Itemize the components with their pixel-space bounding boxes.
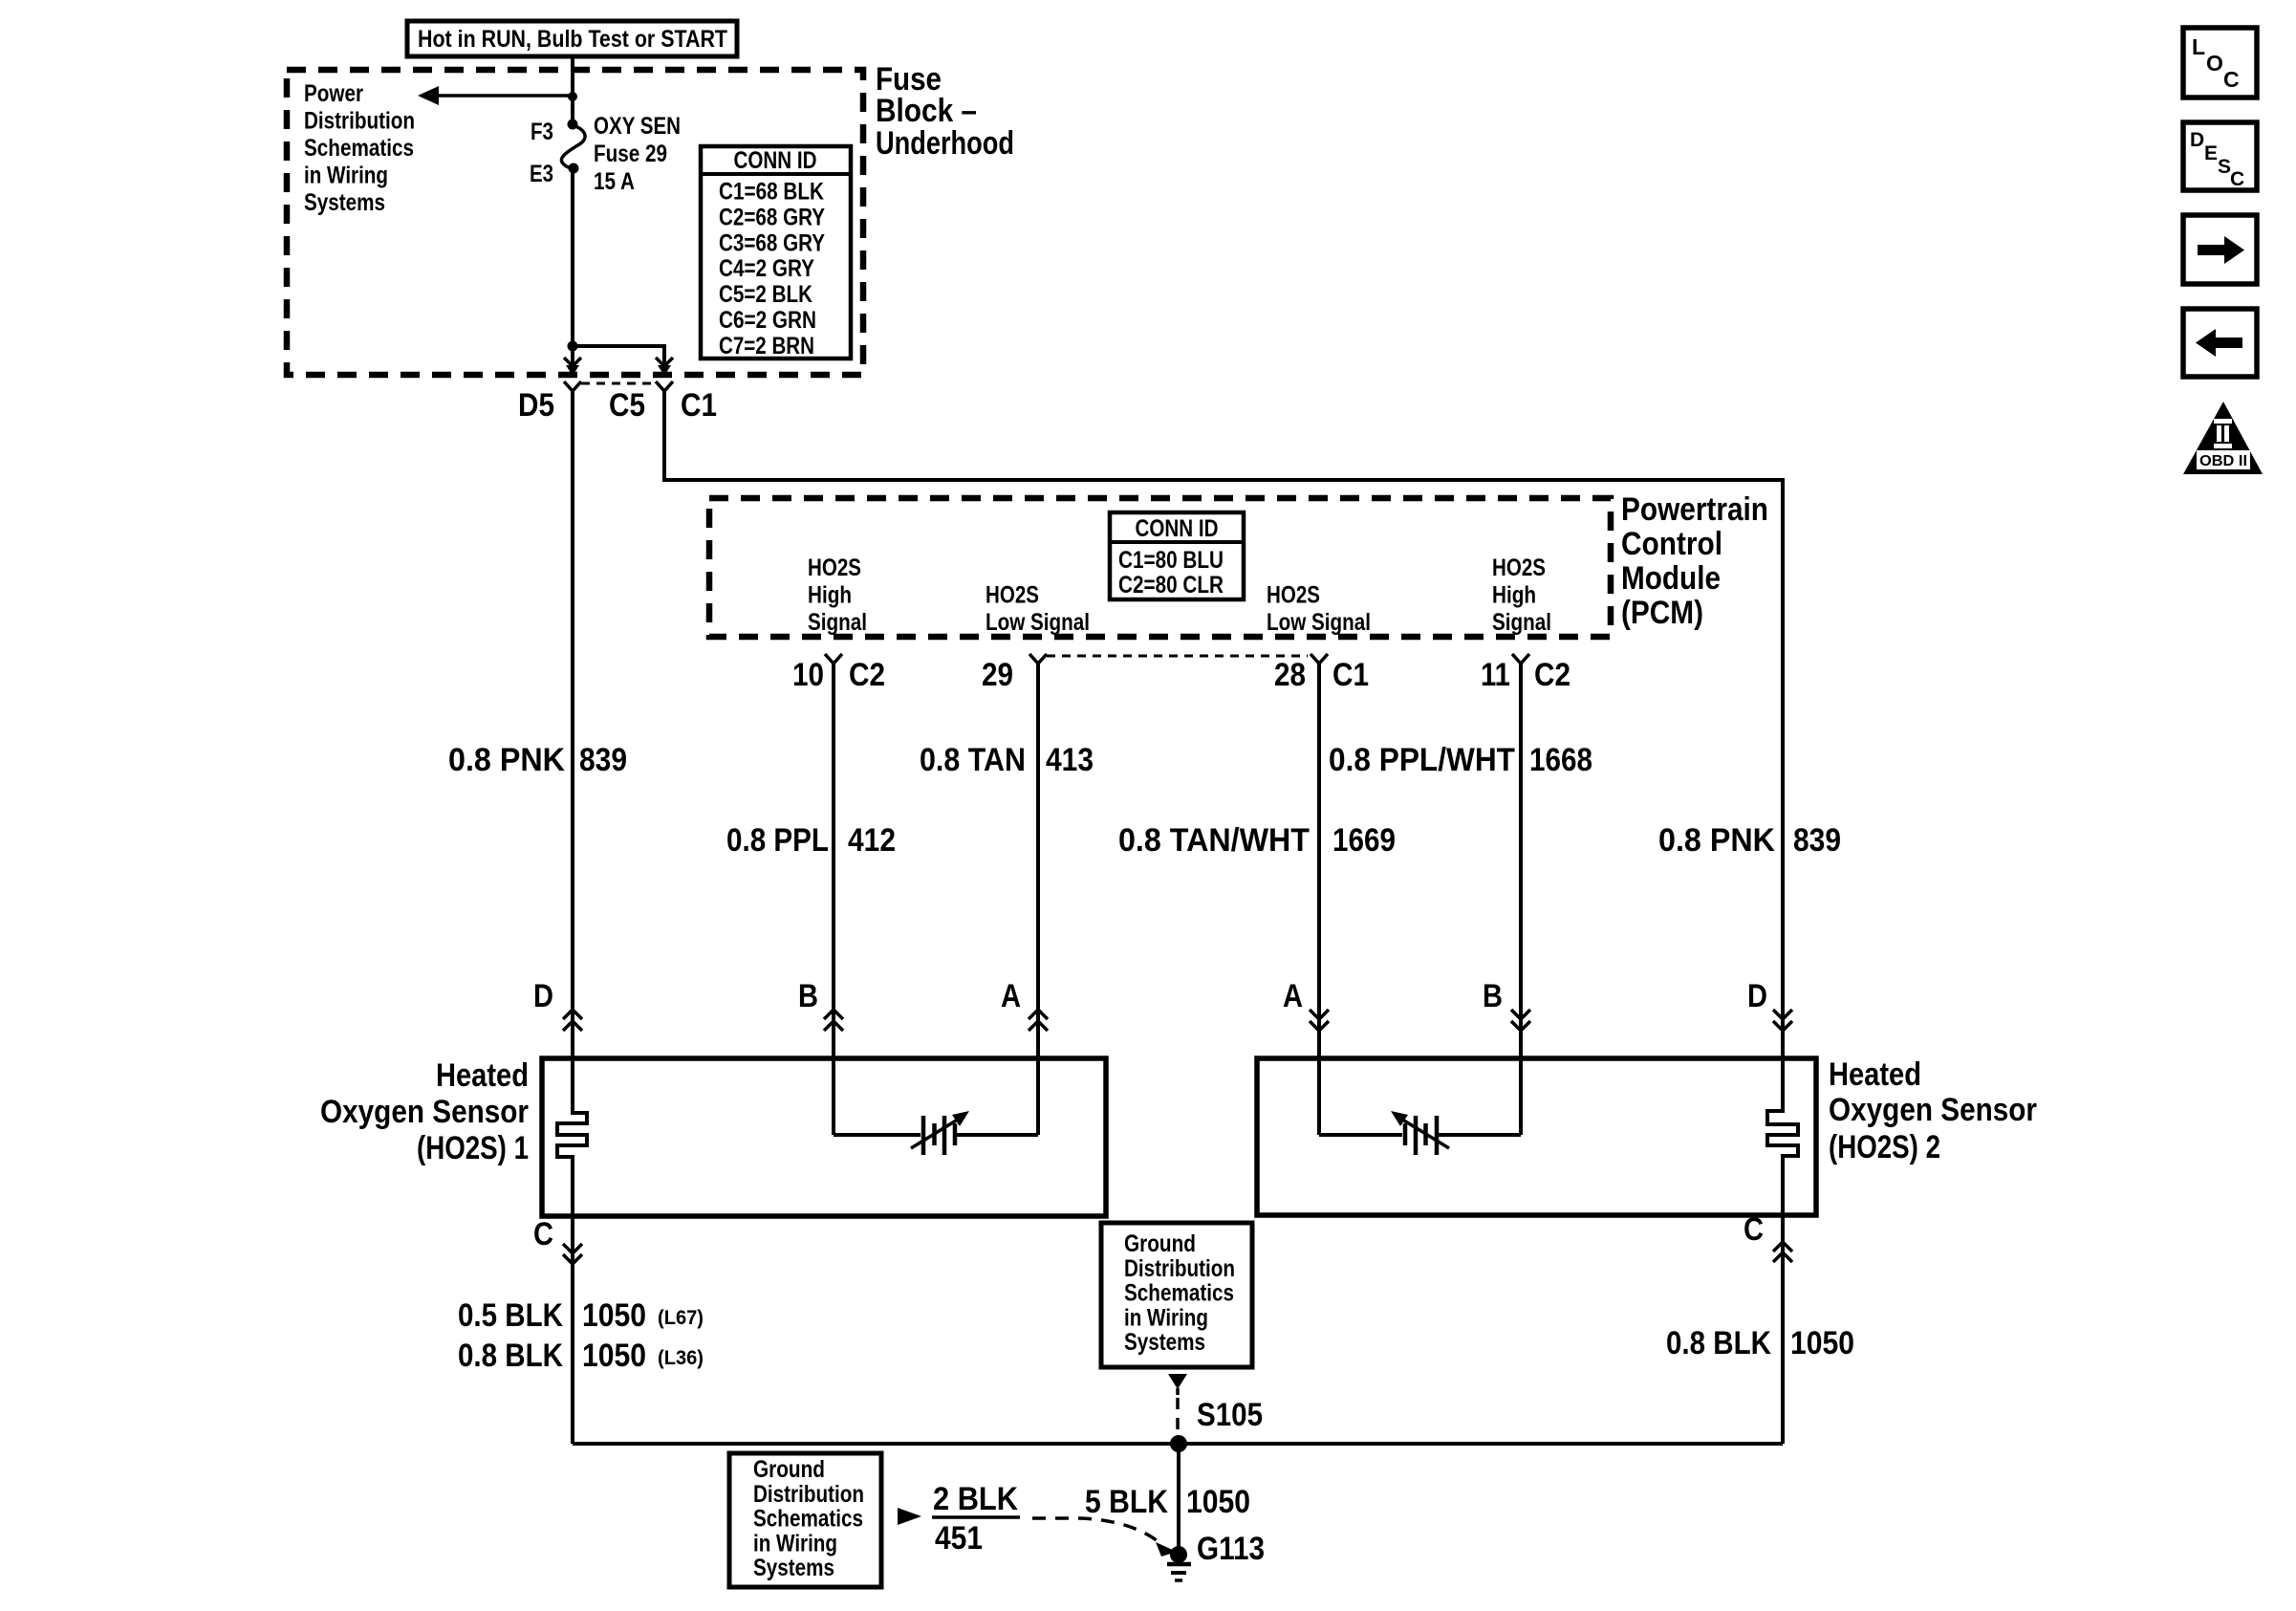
wire: 0.8 BLK 1050 HO2S1 ground [571, 1216, 574, 1444]
svg-text:0.8 TAN: 0.8 TAN [920, 742, 1026, 778]
svg-text:1050: 1050 [582, 1297, 646, 1334]
node: feed junction [568, 92, 577, 101]
icon arrow left [2183, 309, 2257, 377]
svg-text:High: High [1492, 582, 1536, 609]
svg-text:Fuse 29: Fuse 29 [594, 141, 667, 167]
icon DESC [2183, 122, 2257, 190]
splice S105 [1170, 1435, 1187, 1452]
svg-text:HO2S: HO2S [986, 582, 1039, 609]
svg-text:1669: 1669 [1332, 822, 1396, 859]
wire: 0.8 BLK 1050 HO2S2 ground [1781, 1215, 1785, 1444]
svg-text:C2: C2 [849, 657, 885, 693]
svg-text:Heated: Heated [1829, 1056, 1921, 1093]
wire: fuse output to connectors [571, 168, 574, 372]
connector pin D5 [564, 381, 581, 391]
svg-text:C: C [533, 1216, 553, 1252]
icon OBD II triangle [2183, 402, 2263, 474]
svg-text:Low Signal: Low Signal [986, 609, 1090, 636]
svg-text:C3=68 GRY: C3=68 GRY [719, 229, 825, 256]
svg-text:in Wiring: in Wiring [1124, 1304, 1208, 1331]
wire: branch to connector C1 [573, 344, 666, 348]
svg-text:Ground: Ground [753, 1456, 825, 1483]
svg-text:C7=2 BRN: C7=2 BRN [719, 333, 814, 359]
powertrain control module dashed boundary [709, 498, 1611, 637]
wire: drop to connector C1 [662, 346, 666, 372]
wire: branch to power distribution [435, 94, 573, 98]
svg-text:OXY SEN: OXY SEN [594, 113, 681, 140]
svg-text:HO2S: HO2S [1492, 555, 1546, 581]
node: output junction [568, 341, 578, 352]
svg-text:High: High [808, 582, 852, 609]
svg-text:(PCM): (PCM) [1621, 595, 1703, 631]
svg-text:C: C [2223, 67, 2240, 92]
PCM pin 10 C2 [825, 654, 842, 664]
svg-text:CONN ID: CONN ID [734, 147, 817, 174]
svg-text:11: 11 [1481, 657, 1510, 693]
svg-text:B: B [1483, 978, 1503, 1014]
svg-text:A: A [1283, 978, 1303, 1014]
svg-text:2 BLK: 2 BLK [933, 1481, 1018, 1517]
svg-text:C1=80 BLU: C1=80 BLU [1118, 547, 1224, 574]
wire: C1 0.8 PNK feed to HO2S2 heater [664, 391, 1783, 1058]
svg-text:C: C [1744, 1211, 1764, 1248]
svg-text:(HO2S) 1: (HO2S) 1 [417, 1130, 529, 1166]
ground symbol G113 [1167, 1562, 1191, 1567]
in-line connector dashed link C1/C2 (PCM) [1047, 655, 1308, 658]
svg-text:0.5 BLK: 0.5 BLK [458, 1297, 563, 1334]
svg-text:(L36): (L36) [658, 1347, 704, 1369]
svg-text:1050: 1050 [1186, 1484, 1250, 1520]
svg-text:C2: C2 [1534, 657, 1570, 693]
svg-text:Distribution: Distribution [304, 108, 415, 135]
dashed drop to splice S105 [1176, 1398, 1180, 1436]
svg-text:Distribution: Distribution [753, 1481, 864, 1508]
svg-text:Underhood: Underhood [876, 125, 1014, 162]
svg-text:C5=2 BLK: C5=2 BLK [719, 281, 812, 308]
svg-text:O: O [2206, 51, 2223, 76]
svg-text:Schematics: Schematics [1124, 1280, 1234, 1307]
svg-text:413: 413 [1046, 742, 1094, 778]
sensor cell HO2S1 [832, 1058, 835, 1135]
wire: 0.8 PNK 839 to HO2S1 heater [571, 391, 574, 1058]
CONN ID table (PCM) [1110, 512, 1244, 599]
svg-text:Hot in RUN, Bulb Test or START: Hot in RUN, Bulb Test or START [418, 26, 727, 53]
svg-text:1050: 1050 [582, 1338, 646, 1374]
wire: 0.8 TAN 413 [1036, 664, 1040, 1058]
note box: Ground Distribution Schematics (middle) [1101, 1223, 1252, 1367]
wire: 5 BLK 1050 to ground G113 [1177, 1444, 1180, 1555]
svg-text:Ground: Ground [1124, 1230, 1196, 1257]
svg-text:Signal: Signal [1492, 609, 1551, 636]
heater element HO2S1 [557, 1058, 587, 1216]
svg-text:412: 412 [848, 822, 896, 859]
svg-text:D: D [2190, 129, 2204, 151]
icon arrow right [2183, 215, 2257, 284]
pointer triangle from note box [898, 1508, 921, 1525]
svg-text:0.8 PPL: 0.8 PPL [726, 822, 829, 859]
wire: ignition feed from Hot in RUN [571, 56, 574, 126]
svg-text:OBD II: OBD II [2199, 453, 2247, 469]
svg-text:28: 28 [1274, 657, 1306, 693]
svg-text:C: C [2230, 168, 2244, 190]
svg-text:C1=68 BLK: C1=68 BLK [719, 179, 824, 206]
svg-text:C2=68 GRY: C2=68 GRY [719, 204, 825, 230]
PCM pin 28 C1 [1310, 654, 1328, 664]
svg-text:0.8 TAN/WHT: 0.8 TAN/WHT [1118, 822, 1310, 859]
svg-text:Oxygen Sensor: Oxygen Sensor [1829, 1092, 2037, 1128]
arrowhead to power distribution [418, 86, 439, 105]
wire: ground bus to S105 [573, 1442, 1783, 1446]
svg-text:C6=2 GRN: C6=2 GRN [719, 307, 816, 334]
PCM pin 29 [1029, 654, 1047, 664]
svg-text:in Wiring: in Wiring [753, 1530, 837, 1557]
svg-text:451: 451 [935, 1520, 983, 1557]
leader arrowhead at G113 [1156, 1542, 1177, 1557]
icon LOC [2183, 28, 2257, 98]
fuse block dashed boundary [287, 70, 863, 375]
dashed leader 2 BLK 451 to G113 [1032, 1518, 1161, 1544]
svg-text:E: E [2204, 142, 2218, 164]
svg-text:B: B [798, 978, 818, 1014]
wire: 0.8 TAN/WHT 1669 [1317, 664, 1321, 1058]
svg-text:(HO2S) 2: (HO2S) 2 [1829, 1129, 1940, 1165]
svg-text:Powertrain: Powertrain [1621, 491, 1768, 528]
fuse terminal E3 [569, 163, 579, 174]
svg-text:Schematics: Schematics [304, 135, 414, 162]
connector pins C5 / C1 [656, 381, 673, 391]
svg-text:Oxygen Sensor: Oxygen Sensor [320, 1094, 529, 1130]
svg-text:Systems: Systems [1124, 1329, 1205, 1356]
svg-text:D5: D5 [518, 387, 554, 424]
heated oxygen sensor HO2S2 box [1257, 1058, 1816, 1215]
svg-text:15 A: 15 A [594, 168, 635, 195]
svg-text:(L67): (L67) [658, 1307, 704, 1329]
svg-text:Schematics: Schematics [753, 1506, 863, 1533]
note box: Ground Distribution Schematics (bottom) [729, 1453, 881, 1587]
svg-text:S: S [2218, 156, 2231, 178]
svg-text:Control: Control [1621, 526, 1722, 562]
svg-text:F3: F3 [531, 119, 553, 145]
svg-text:Systems: Systems [304, 189, 385, 216]
svg-text:839: 839 [579, 742, 627, 778]
svg-text:0.8 PNK: 0.8 PNK [448, 742, 565, 778]
svg-text:0.8 BLK: 0.8 BLK [458, 1338, 563, 1374]
heated oxygen sensor HO2S1 box [542, 1058, 1106, 1216]
pointer triangle to S105 [1168, 1374, 1187, 1389]
svg-text:5 BLK: 5 BLK [1085, 1484, 1168, 1520]
svg-text:10: 10 [792, 657, 824, 693]
wire: 0.8 PPL 412 [832, 664, 835, 1058]
fuse OXY SEN Fuse 29 15 A element [561, 125, 585, 168]
svg-text:Distribution: Distribution [1124, 1255, 1235, 1282]
ground G113 [1170, 1546, 1187, 1563]
svg-text:D: D [1747, 978, 1767, 1014]
svg-text:C2=80 CLR: C2=80 CLR [1118, 572, 1224, 599]
in-line connector dashed link D5-C5 [581, 382, 658, 385]
sensor cell HO2S2 [1317, 1058, 1321, 1135]
label box: Hot in RUN, Bulb Test or START [407, 21, 737, 56]
svg-text:29: 29 [982, 657, 1013, 693]
wire: 0.8 PPL/WHT 1668 [1519, 664, 1523, 1058]
svg-text:1668: 1668 [1529, 742, 1592, 778]
svg-text:C1: C1 [1332, 657, 1369, 693]
svg-text:G113: G113 [1197, 1531, 1265, 1567]
PCM pin 11 C2 [1512, 654, 1529, 664]
fuse terminal F3 [568, 120, 578, 130]
svg-text:C5: C5 [609, 387, 645, 424]
svg-text:Power: Power [304, 80, 363, 107]
svg-text:HO2S: HO2S [808, 555, 861, 581]
CONN ID table (fuse block) [701, 146, 851, 359]
svg-text:C1: C1 [681, 387, 717, 424]
svg-text:D: D [533, 978, 553, 1014]
svg-text:Module: Module [1621, 560, 1721, 597]
svg-text:0.8 PNK: 0.8 PNK [1658, 822, 1775, 859]
svg-text:E3: E3 [530, 161, 553, 187]
svg-text:0.8 BLK: 0.8 BLK [1666, 1325, 1771, 1361]
svg-text:Signal: Signal [808, 609, 867, 636]
svg-text:C4=2 GRY: C4=2 GRY [719, 255, 814, 282]
svg-text:Heated: Heated [436, 1057, 529, 1094]
svg-text:HO2S: HO2S [1267, 582, 1320, 609]
svg-text:A: A [1001, 978, 1021, 1014]
arrow into connector C1 [656, 358, 673, 366]
svg-text:0.8 PPL/WHT: 0.8 PPL/WHT [1329, 742, 1515, 778]
svg-text:Low Signal: Low Signal [1267, 609, 1371, 636]
svg-text:Systems: Systems [753, 1555, 834, 1581]
heater element HO2S2 [1767, 1058, 1798, 1215]
svg-text:S105: S105 [1197, 1397, 1263, 1433]
svg-text:L: L [2192, 34, 2205, 59]
svg-text:1050: 1050 [1790, 1325, 1854, 1361]
svg-text:CONN ID: CONN ID [1136, 515, 1219, 542]
svg-text:Block –: Block – [876, 93, 977, 129]
svg-text:in Wiring: in Wiring [304, 163, 388, 189]
arrow into connector D5 [564, 358, 581, 366]
svg-text:839: 839 [1793, 822, 1841, 859]
